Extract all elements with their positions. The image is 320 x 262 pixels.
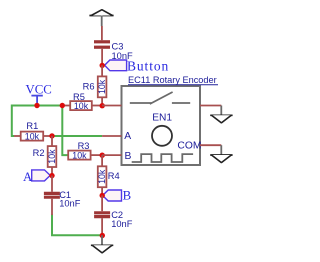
node Button junction xyxy=(100,63,105,68)
node VCC junction xyxy=(34,103,39,108)
pin button right xyxy=(200,105,221,107)
encoder shaft circle xyxy=(152,126,172,146)
node R5 right junction xyxy=(100,103,105,108)
capacitor C2 xyxy=(94,196,133,236)
pin button left xyxy=(102,105,121,107)
node A flag junction xyxy=(49,173,54,178)
node B flag junction xyxy=(100,193,105,198)
wire bottom ground green from C1 to bottom junction xyxy=(52,215,102,236)
node R1 right junction xyxy=(49,133,54,138)
svg-text:EN1: EN1 xyxy=(152,113,172,124)
svg-text:10k: 10k xyxy=(25,131,40,141)
svg-text:10k: 10k xyxy=(97,169,107,184)
svg-text:B: B xyxy=(123,188,132,202)
wire VCC rail green L from R1 up and across to R5 junction xyxy=(12,106,63,137)
power flag top (up triangle) xyxy=(89,10,113,27)
wire VCC drop to R3 xyxy=(62,106,68,156)
node R5 left junction xyxy=(60,103,65,108)
svg-text:10nF: 10nF xyxy=(59,199,81,209)
svg-text:COM: COM xyxy=(177,140,201,151)
svg-text:Button: Button xyxy=(127,59,169,74)
svg-text:10k: 10k xyxy=(72,151,87,161)
ground right bottom xyxy=(210,145,232,162)
switch inside encoder xyxy=(130,92,190,104)
svg-text:R4: R4 xyxy=(108,171,120,181)
waveform inside encoder xyxy=(132,154,193,162)
ground bottom xyxy=(91,235,113,253)
pin B xyxy=(102,154,121,156)
svg-text:VCC: VCC xyxy=(26,83,52,97)
resistor R3 xyxy=(68,141,102,160)
op encoder EC11 box xyxy=(122,75,219,165)
pin A xyxy=(102,135,121,137)
net flag A xyxy=(23,170,50,184)
resistor R6 xyxy=(83,65,108,105)
capacitor C1 xyxy=(44,176,81,215)
svg-text:10k: 10k xyxy=(47,149,57,164)
net flag B xyxy=(103,188,132,202)
svg-text:R2: R2 xyxy=(33,148,45,158)
pin COM right xyxy=(200,144,221,146)
svg-text:R1: R1 xyxy=(26,121,38,131)
svg-text:EC11 Rotary Encoder: EC11 Rotary Encoder xyxy=(128,75,217,85)
svg-text:10nF: 10nF xyxy=(111,219,133,229)
capacitor C3 xyxy=(94,26,133,65)
wire node A row green xyxy=(52,135,102,137)
svg-text:R6: R6 xyxy=(83,81,95,91)
svg-text:B: B xyxy=(125,151,132,162)
VCC power port xyxy=(26,83,52,105)
svg-text:10k: 10k xyxy=(74,101,89,111)
resistor R1 xyxy=(14,121,52,141)
resistor R2 xyxy=(33,136,57,176)
svg-text:A: A xyxy=(23,170,33,184)
svg-text:A: A xyxy=(124,131,131,142)
resistor R5 xyxy=(62,92,102,111)
svg-text:10k: 10k xyxy=(97,79,107,94)
ground right top xyxy=(210,106,232,123)
node bottom junction xyxy=(100,233,105,238)
resistor R4 xyxy=(97,155,119,195)
node R3 right junction xyxy=(100,153,105,158)
net flag Button xyxy=(105,59,170,74)
